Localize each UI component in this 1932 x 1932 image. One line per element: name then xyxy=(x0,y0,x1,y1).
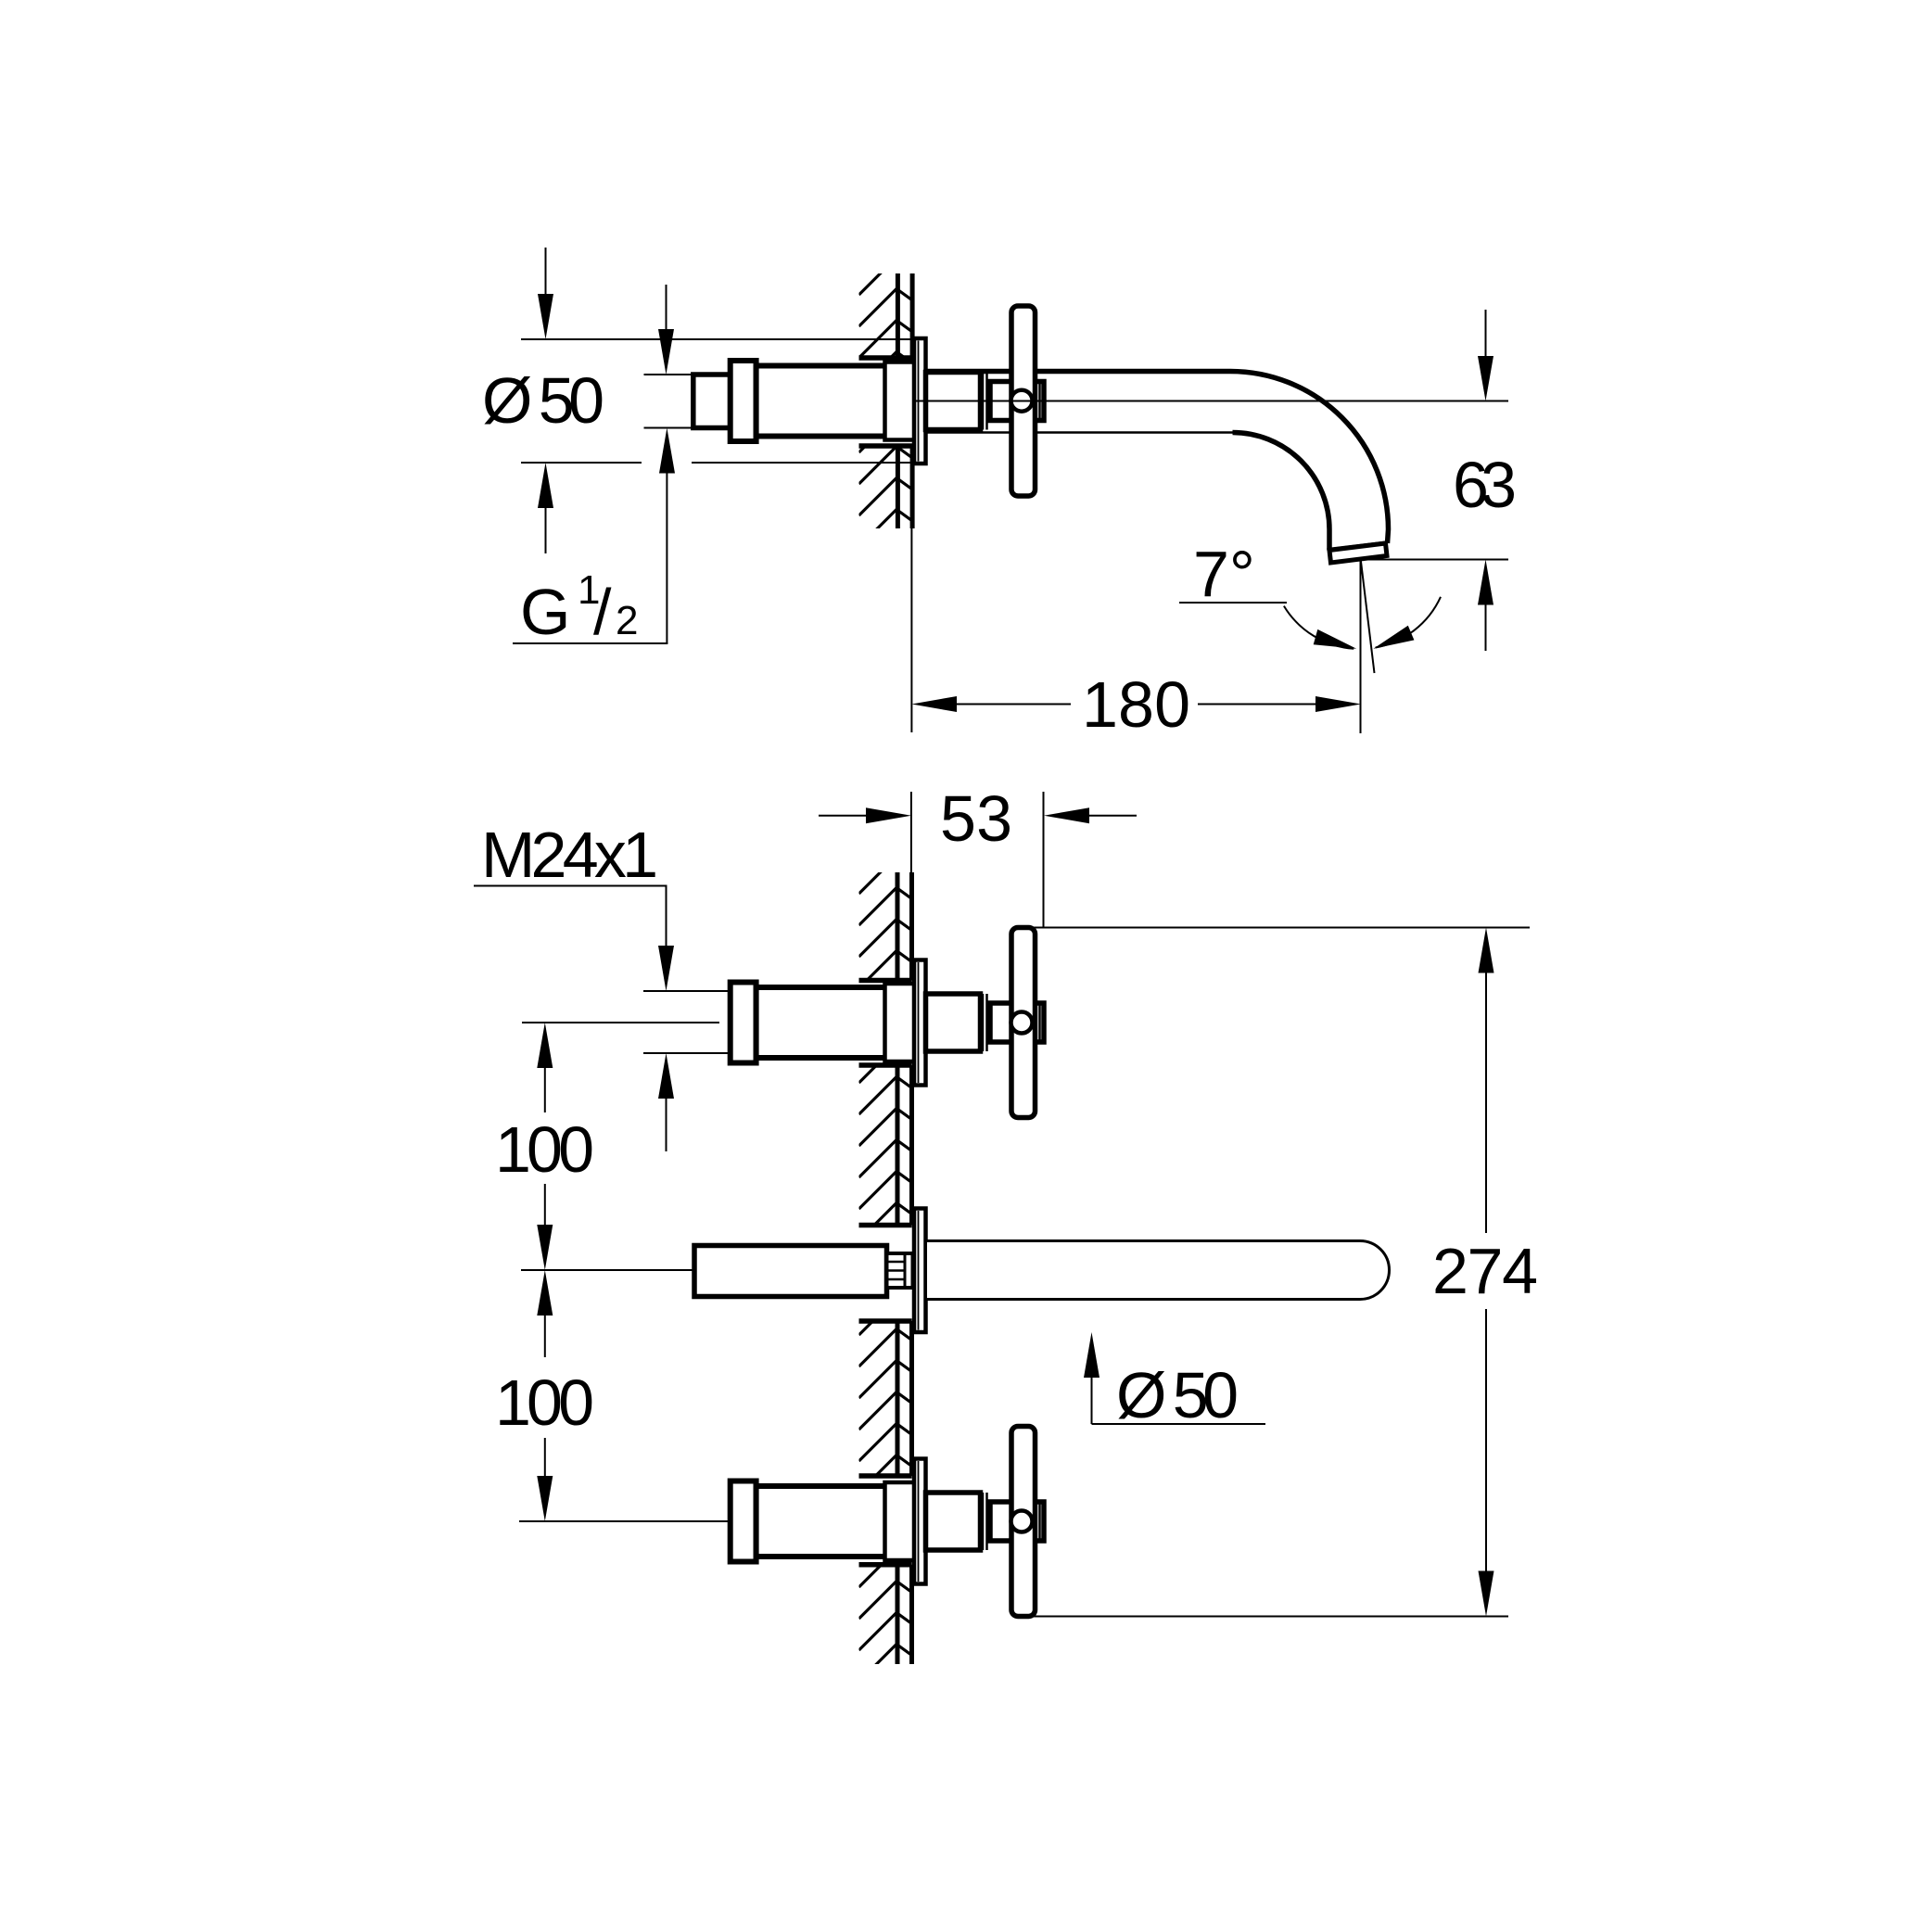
valve1 cross bar xyxy=(1011,928,1036,1118)
M24 extension line bottom xyxy=(643,1052,731,1054)
valve2 flange xyxy=(914,1459,926,1584)
valve neck xyxy=(885,362,916,440)
M24x1 leader xyxy=(474,886,667,947)
dimension line Ø50 top reference xyxy=(521,338,913,340)
svg-text:53: 53 xyxy=(940,782,1012,855)
wall front line left xyxy=(896,273,900,528)
wall hole bottom edge xyxy=(859,443,913,449)
handle cross bar xyxy=(1011,306,1036,496)
wall hole edges valve 2 xyxy=(859,1473,912,1479)
wall hatching band 4 xyxy=(859,1565,912,1664)
svg-text:180: 180 xyxy=(1082,668,1190,741)
dimension line Ø50 bottom reference xyxy=(521,462,913,464)
svg-text:63: 63 xyxy=(1453,449,1517,521)
wall hatching upper band xyxy=(859,273,912,358)
dim 274 bottom extension xyxy=(1034,1616,1508,1618)
label 7 degrees leader xyxy=(1179,602,1287,604)
dim 100b bottom arrow xyxy=(544,1438,546,1477)
valve1 stem xyxy=(926,994,981,1051)
valve1 hub circle xyxy=(1011,1012,1033,1034)
extension line G1/2 stub top xyxy=(644,374,694,375)
valve1 hub xyxy=(990,1003,1044,1042)
angle arc xyxy=(1284,597,1441,649)
arrow Ø50 bottom xyxy=(545,508,547,553)
handle ring lines xyxy=(982,373,985,430)
arrow stub top xyxy=(666,285,667,334)
arrow stub bottom with leader to G1/2 xyxy=(666,473,667,643)
handle hub xyxy=(990,382,1044,421)
arrow 63 top xyxy=(1485,310,1487,361)
center axis line / 63 top reference xyxy=(914,400,1508,402)
svg-text:M24x1: M24x1 xyxy=(481,819,658,891)
valve collar xyxy=(731,361,756,441)
spout center line xyxy=(521,1269,693,1271)
wall front line left xyxy=(896,872,900,1664)
leader underline G1/2 xyxy=(513,642,667,644)
wall hatching lower band xyxy=(859,446,912,528)
dim 100a top arrow xyxy=(544,1068,546,1112)
wall hole white xyxy=(857,361,914,444)
dim 274 top extension xyxy=(1016,927,1530,929)
wall surface line right xyxy=(910,273,915,528)
dim 100a bottom arrow xyxy=(544,1184,546,1226)
wall flange xyxy=(914,338,926,464)
valve2 stem xyxy=(926,1493,981,1550)
dim 100b top arrow xyxy=(544,1316,546,1357)
extension line G1/2 stub bottom xyxy=(644,427,694,429)
dim 53 right arrow xyxy=(1089,815,1137,817)
valve2 neck xyxy=(885,1482,916,1560)
valve1 collar xyxy=(731,983,756,1063)
spout outlet face band xyxy=(1329,543,1387,563)
svg-text:7°: 7° xyxy=(1193,538,1255,610)
label Ø50 bottom with leader xyxy=(1084,1332,1099,1378)
valve2 collar xyxy=(731,1481,756,1562)
wall hole edges spout xyxy=(859,1223,912,1228)
wall hole top edge xyxy=(859,355,913,361)
dim 53 left arrow xyxy=(819,815,866,817)
dim 274 line xyxy=(1485,973,1487,1234)
valve2 center line xyxy=(519,1520,731,1522)
svg-text:/: / xyxy=(593,576,612,648)
wall hatching band 3 xyxy=(859,1321,912,1476)
180 left extension line (wall) xyxy=(910,528,912,732)
180 dimension line with arrows xyxy=(957,704,1071,705)
wall hatching band 2 xyxy=(859,1065,912,1226)
valve stub xyxy=(693,375,731,428)
valve1 body xyxy=(756,987,887,1058)
svg-text:100: 100 xyxy=(495,1113,594,1186)
arrow Ø50 top xyxy=(545,248,547,306)
svg-text:G: G xyxy=(520,576,570,648)
valve1 neck xyxy=(885,984,916,1061)
valve2 body xyxy=(756,1486,887,1557)
valve body xyxy=(756,366,887,437)
wall surface line right xyxy=(909,872,914,1664)
spout tube curved xyxy=(924,372,1389,551)
valve2 hub xyxy=(990,1502,1044,1541)
valve2 cross bar xyxy=(1011,1427,1036,1617)
valve1 center line xyxy=(522,1022,719,1023)
M24 extension line top xyxy=(643,990,731,992)
dim 53 right extension line xyxy=(1043,792,1045,928)
valve1 flange xyxy=(914,960,926,1086)
valve2 hub circle xyxy=(1011,1511,1033,1532)
M24 bottom arrow xyxy=(666,1099,667,1151)
wall hole edges valve 1 xyxy=(859,978,912,984)
spout tube xyxy=(926,1241,1390,1300)
handle hub screw circle xyxy=(1011,390,1033,412)
svg-text:274: 274 xyxy=(1432,1235,1538,1307)
svg-text:Ø 50: Ø 50 xyxy=(1116,1359,1239,1431)
7 degree slanted line xyxy=(1361,560,1375,673)
63 bottom reference line xyxy=(1361,559,1509,561)
handle stem xyxy=(926,373,981,430)
spout connector xyxy=(887,1253,913,1288)
svg-text:2: 2 xyxy=(616,598,638,643)
svg-text:100: 100 xyxy=(495,1366,594,1439)
dim 53 left extension line xyxy=(910,792,912,872)
arrow 63 bottom xyxy=(1485,604,1487,651)
7 degree vertical extension line xyxy=(1360,559,1362,733)
spout cartridge box xyxy=(694,1246,887,1297)
svg-text:Ø 50: Ø 50 xyxy=(482,364,604,437)
wall hatching band 1 xyxy=(859,872,912,981)
wall hole whites xyxy=(857,983,914,1063)
spout flange xyxy=(914,1209,926,1333)
angle arc arrowheads xyxy=(1314,629,1357,649)
